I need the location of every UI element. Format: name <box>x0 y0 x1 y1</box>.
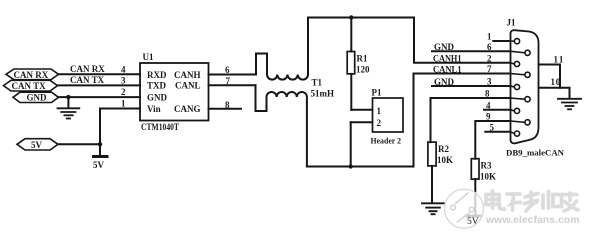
svg-text:4: 4 <box>486 100 491 110</box>
wire pin5 stub <box>485 131 510 133</box>
svg-text:5V: 5V <box>467 217 479 227</box>
J1 pin circles <box>514 39 530 137</box>
svg-text:1: 1 <box>377 106 382 116</box>
junction 5V <box>98 142 102 146</box>
svg-text:1: 1 <box>487 32 492 42</box>
wire pin7 CANL <box>209 84 256 86</box>
svg-text:2: 2 <box>377 118 382 128</box>
svg-text:51mH: 51mH <box>311 89 335 99</box>
svg-text:Header 2: Header 2 <box>371 136 402 146</box>
port GND <box>13 92 59 102</box>
svg-text:U1: U1 <box>143 52 154 62</box>
wire pin11 <box>539 65 561 88</box>
svg-text:CANL: CANL <box>175 81 201 91</box>
resistor R1 <box>347 15 355 110</box>
svg-text:9: 9 <box>486 112 491 122</box>
svg-text:CAN TX: CAN TX <box>70 75 105 85</box>
resistor R2 <box>428 142 436 203</box>
transformer T1 bottom winding <box>256 85 307 166</box>
svg-text:CANH1: CANH1 <box>433 54 462 64</box>
svg-text:1: 1 <box>121 98 126 108</box>
svg-text:5V: 5V <box>93 160 105 170</box>
wire CAN TX <box>58 84 141 86</box>
svg-text:R2: R2 <box>438 144 449 154</box>
connector J1 DB9 body <box>511 30 539 143</box>
wire GND pin3 <box>432 85 511 87</box>
port CAN TX <box>4 80 58 91</box>
svg-text:7: 7 <box>487 64 492 74</box>
svg-text:RXD: RXD <box>147 70 167 80</box>
svg-text:R3: R3 <box>481 161 492 171</box>
svg-text:CTM1040T: CTM1040T <box>141 122 179 132</box>
resistor R3 <box>471 159 479 216</box>
wire bottom rail <box>307 166 414 168</box>
svg-text:8: 8 <box>225 100 230 110</box>
svg-text:CAN RX: CAN RX <box>70 64 105 74</box>
svg-text:www.elecfans.com: www.elecfans.com <box>485 214 580 226</box>
svg-text:2: 2 <box>487 53 492 63</box>
wire Vin <box>100 109 140 157</box>
svg-text:8: 8 <box>485 89 490 99</box>
port 5V <box>17 139 58 150</box>
wire pin8 to R2 <box>431 98 511 142</box>
wire pin1 stub <box>493 40 510 42</box>
wire pin4 stub <box>484 109 511 111</box>
svg-text:Vin: Vin <box>147 104 161 114</box>
wire pin9 to R3 <box>475 121 510 159</box>
svg-text:GND: GND <box>434 77 455 87</box>
wire GND <box>59 96 141 98</box>
watermark logo circle <box>445 189 484 228</box>
wire CAN RX <box>59 73 141 75</box>
ground (J1 shield) <box>558 99 581 110</box>
svg-text:J1: J1 <box>507 18 517 28</box>
op chip U1 box <box>140 63 209 121</box>
svg-text:CAN TX: CAN TX <box>12 81 47 91</box>
J1 pin stubs <box>511 41 525 134</box>
junction GND <box>66 95 70 99</box>
wire pin8 CANG stub <box>209 108 242 110</box>
svg-text:5V: 5V <box>31 140 43 150</box>
wire CANL1 riser <box>414 74 511 167</box>
wire GND pin6 <box>432 50 511 52</box>
svg-text:R1: R1 <box>357 54 368 64</box>
watermark chinese text (drawn shapes) <box>486 191 578 211</box>
ground (left) <box>58 97 80 118</box>
svg-text:DB9_maleCAN: DB9_maleCAN <box>506 148 565 158</box>
svg-text:TXD: TXD <box>147 81 167 91</box>
svg-text:GND: GND <box>147 92 168 102</box>
svg-text:GND: GND <box>434 42 455 52</box>
svg-text:GND: GND <box>27 93 48 103</box>
svg-text:CAN RX: CAN RX <box>14 70 49 80</box>
svg-text:3: 3 <box>121 76 126 86</box>
svg-text:P1: P1 <box>372 88 382 98</box>
svg-text:6: 6 <box>225 65 230 75</box>
svg-text:5: 5 <box>490 122 495 132</box>
wire pin10 <box>539 88 570 99</box>
svg-text:T1: T1 <box>312 78 323 88</box>
svg-text:CANL1: CANL1 <box>433 64 462 74</box>
svg-text:CANH: CANH <box>174 70 201 80</box>
svg-text:120: 120 <box>356 65 370 75</box>
svg-text:CANG: CANG <box>174 104 201 114</box>
wire CANH1 riser <box>414 18 511 63</box>
svg-text:6: 6 <box>487 42 492 52</box>
power bar 5V <box>94 155 108 158</box>
transformer T1 top winding <box>256 18 308 80</box>
svg-text:4: 4 <box>121 65 126 75</box>
svg-text:7: 7 <box>226 76 231 86</box>
header P1 <box>349 98 404 169</box>
power bar 5V (R3) <box>466 215 481 218</box>
svg-text:3: 3 <box>487 76 492 86</box>
wire pin6 CANH <box>209 74 257 76</box>
svg-text:10: 10 <box>551 77 562 87</box>
ground (R2) <box>422 203 444 214</box>
port CAN RX <box>6 69 59 80</box>
svg-text:10K: 10K <box>480 172 496 182</box>
svg-text:10K: 10K <box>437 155 453 165</box>
wire top rail <box>308 17 414 19</box>
svg-text:11: 11 <box>554 55 565 65</box>
wire 5V port <box>58 143 100 145</box>
svg-text:2: 2 <box>121 87 126 97</box>
